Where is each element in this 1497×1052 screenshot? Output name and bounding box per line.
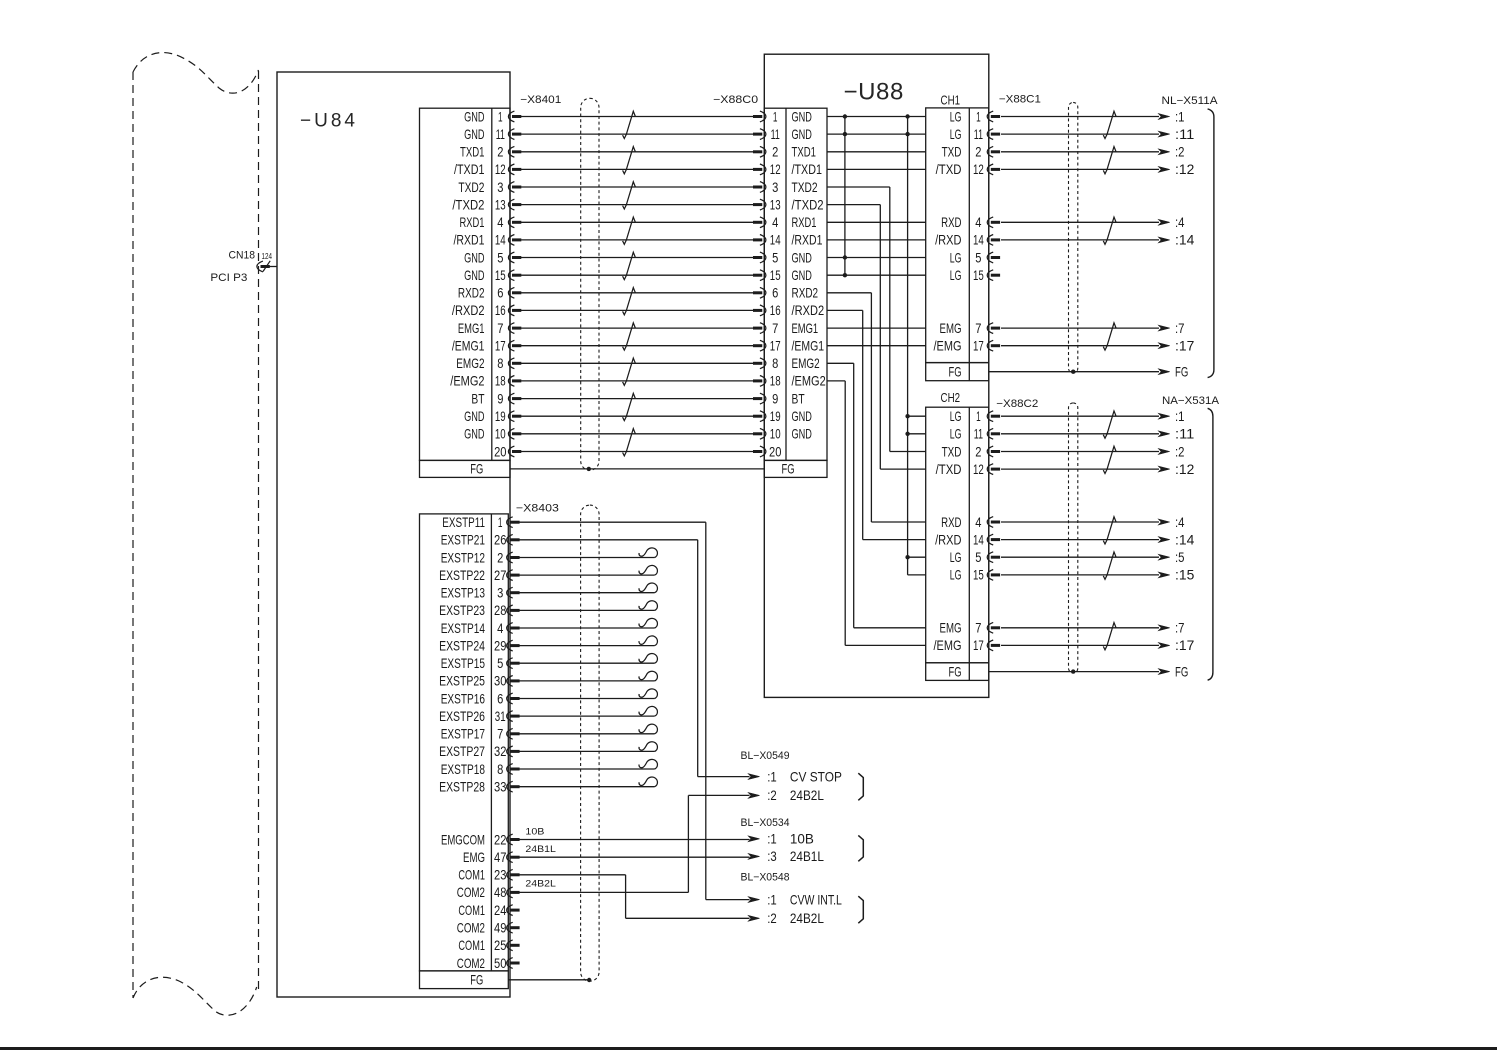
wire U88 EMG1 pin 7 to CH1 (827, 327, 926, 329)
svg-text:11: 11 (974, 127, 983, 142)
CH1 FG cell (949, 365, 962, 380)
wire CH1 to NL-X511A :14 (1001, 233, 1195, 248)
twisted pair mark wires 3/13 (623, 182, 636, 209)
wire CH2 to NA-X531A :5 (1001, 550, 1185, 565)
svg-text:5: 5 (497, 250, 503, 265)
wire U88 RXD1 pin 4 to CH1 (827, 221, 926, 223)
svg-text:TXD: TXD (942, 444, 962, 459)
svg-text::17: :17 (1175, 638, 1194, 653)
svg-text:RXD2: RXD2 (458, 286, 485, 301)
wire X8401 pin 4 to X88C0 pin 4 (RXD1) (521, 221, 753, 223)
wire U88 /EMG1 pin 17 to CH1 (827, 345, 926, 347)
svg-text:3: 3 (772, 180, 778, 195)
U88 channel CH2 connector table frame (926, 407, 989, 680)
svg-text::12: :12 (1175, 462, 1194, 477)
svg-text::12: :12 (1175, 162, 1194, 177)
svg-text:5: 5 (975, 250, 981, 265)
svg-text:1: 1 (773, 109, 778, 124)
svg-text:GND: GND (792, 409, 812, 424)
connector X8401 FG cell (470, 461, 483, 476)
svg-text:12: 12 (770, 162, 781, 177)
terminal group label BL-X0534 (741, 817, 790, 829)
svg-text:/EMG2: /EMG2 (792, 374, 826, 389)
svg-text:1: 1 (498, 515, 503, 530)
svg-text:1: 1 (976, 409, 981, 424)
svg-text:EXSTP26: EXSTP26 (439, 709, 485, 724)
svg-text::4: :4 (1175, 515, 1185, 530)
svg-text:/TXD: /TXD (936, 462, 962, 477)
wire X8403 COM2 pin 48 (24B2L) to BL-X0549 :2 (519, 795, 749, 892)
svg-text:BT: BT (471, 391, 485, 406)
wire X8403 EXSTP13 pin 3 spare (coiled end) (519, 583, 657, 593)
svg-text:TXD1: TXD1 (792, 145, 817, 160)
connector X8403 table frame (420, 514, 509, 989)
svg-text:/TXD1: /TXD1 (454, 162, 485, 177)
wire U88 GND pin 5 to CH1 (827, 257, 926, 259)
svg-text:9: 9 (497, 391, 503, 406)
svg-text:10B: 10B (790, 832, 814, 847)
svg-text:RXD1: RXD1 (792, 215, 817, 230)
svg-text:24B2L: 24B2L (525, 879, 556, 890)
svg-text:EMG: EMG (463, 850, 485, 865)
svg-text:EXSTP25: EXSTP25 (439, 674, 485, 689)
svg-text:EMG2: EMG2 (792, 356, 820, 371)
svg-text:50: 50 (494, 956, 507, 971)
svg-text:LG: LG (950, 568, 962, 583)
wire FG X8401 to X88C0 with shield junction (510, 467, 764, 471)
svg-text:COM2: COM2 (457, 885, 485, 900)
svg-text:−X88C2: −X88C2 (996, 398, 1038, 410)
svg-text:CH1: CH1 (941, 93, 961, 108)
wire X8403 EXSTP11 pin 1 to BL-X0548 :1 (519, 522, 749, 899)
BL-X0548 :1 CVW INT.L (748, 892, 842, 907)
svg-text:EXSTP18: EXSTP18 (441, 762, 486, 777)
wire CH2 to NA-X531A :15 (1001, 568, 1195, 583)
connector CN18 (PCI P3) pin stub with bus slash, wire to U84 (210, 249, 277, 284)
svg-text:5: 5 (497, 656, 503, 671)
connector X8403 FG cell (470, 972, 483, 987)
wire X8401 pin 14 to X88C0 pin 14 (/RXD1) (521, 239, 753, 241)
svg-text:10: 10 (495, 427, 506, 442)
svg-text:25: 25 (494, 938, 507, 953)
svg-text:15: 15 (973, 568, 984, 583)
svg-text:17: 17 (973, 638, 984, 653)
twisted pair mark :2/:12 (1103, 446, 1116, 473)
wire X8403 EMG pin 47 (24B1L) to BL-X0534 :3 (519, 844, 749, 857)
wire X8401 pin 7 to X88C0 pin 7 (EMG1) (521, 327, 753, 329)
twisted pair mark wires 9/19 (623, 393, 636, 420)
svg-text:LG: LG (950, 250, 962, 265)
svg-text:28: 28 (494, 603, 507, 618)
svg-text:/TXD: /TXD (936, 162, 962, 177)
twisted pair mark :2/:12 (1103, 147, 1116, 174)
svg-text:17: 17 (770, 339, 781, 354)
wire X8401 pin 20 to X88C0 pin 20 (521, 451, 753, 453)
svg-text:13: 13 (495, 197, 506, 212)
wire X8403 EXSTP27 pin 32 spare (coiled end) (519, 742, 657, 752)
svg-text:CVW INT.L: CVW INT.L (790, 892, 842, 907)
svg-text:GND: GND (792, 427, 812, 442)
svg-text:4: 4 (497, 621, 503, 636)
svg-text:11: 11 (974, 427, 983, 442)
wire X8403 EXSTP12 pin 2 spare (coiled end) (519, 548, 657, 558)
wire CH2 to NA-X531A :11 (1001, 427, 1194, 442)
wire X8403 EXSTP17 pin 7 spare (coiled end) (519, 724, 657, 734)
svg-text:FG: FG (782, 461, 795, 476)
svg-text:14: 14 (973, 532, 984, 547)
wire CH2 to NA-X531A :12 (1001, 462, 1194, 477)
svg-text:LG: LG (950, 427, 962, 442)
svg-text:/EMG1: /EMG1 (452, 339, 485, 354)
wire X8403 EMGCOM pin 22 (10B) to BL-X0534 :1 (519, 827, 749, 840)
label NL-X511A (1162, 95, 1219, 107)
CH1 pin sockets (987, 111, 1000, 351)
svg-text:3: 3 (497, 180, 503, 195)
wire U88 RXD2 to CH2 (827, 293, 926, 522)
connector X8401 table frame (420, 108, 511, 477)
svg-text:8: 8 (772, 356, 778, 371)
svg-text:15: 15 (770, 268, 781, 283)
wire CH2 to NA-X531A :17 (1001, 638, 1194, 653)
wire CH1 to NL-X511A :17 (1001, 339, 1194, 354)
svg-text:2: 2 (497, 145, 503, 160)
wire X8403 EXSTP26 pin 31 spare (coiled end) (519, 706, 657, 716)
wire CH1 to NL-X511A :11 (1001, 127, 1194, 142)
svg-text:20: 20 (494, 444, 507, 459)
svg-text::2: :2 (1175, 444, 1185, 459)
svg-text:−U88: −U88 (844, 79, 904, 106)
svg-text:11: 11 (771, 127, 780, 142)
terminal group bracket BL-X0548 (858, 896, 863, 923)
wire CH2 to NA-X531A :7 (1001, 621, 1185, 636)
svg-text:EXSTP21: EXSTP21 (441, 533, 485, 548)
svg-text:/TXD2: /TXD2 (792, 197, 824, 212)
svg-text::7: :7 (1175, 321, 1185, 336)
label -X8401 (520, 94, 561, 106)
svg-text:4: 4 (772, 215, 778, 230)
svg-text:4: 4 (497, 215, 503, 230)
wire X8401 pin 3 to X88C0 pin 3 (TXD2) (521, 186, 753, 188)
svg-text:COM1: COM1 (458, 938, 485, 953)
svg-text:18: 18 (770, 374, 781, 389)
svg-text:16: 16 (495, 303, 506, 318)
junction dots GND bus rows 1/11 (843, 114, 910, 136)
svg-text:7: 7 (975, 321, 981, 336)
twisted pair mark wires 6/16 (623, 288, 636, 315)
svg-text:EXSTP24: EXSTP24 (439, 638, 485, 653)
svg-text:7: 7 (497, 727, 503, 742)
svg-text:−X8403: −X8403 (516, 502, 559, 514)
svg-text:PCI P3: PCI P3 (210, 272, 247, 284)
connector X88C0 pin sockets (753, 111, 766, 457)
cable group bracket NL-X511A (1208, 109, 1214, 378)
wire CH1 FG to NL-X511A FG with shield junction (989, 364, 1189, 379)
CH2 FG cell (949, 664, 962, 679)
cable shield X8401-X88C0 (dashed capsule) (581, 98, 599, 470)
wire X8403 EXSTP25 pin 30 spare (coiled end) (519, 671, 657, 681)
svg-text:2: 2 (975, 145, 981, 160)
svg-text::14: :14 (1175, 532, 1195, 547)
svg-text:LG: LG (950, 268, 962, 283)
svg-text::17: :17 (1175, 339, 1194, 354)
svg-text:GND: GND (464, 427, 484, 442)
svg-text::1: :1 (767, 892, 777, 907)
BL-X0549 :1 CV STOP (748, 769, 842, 784)
wire X8401 pin 10 to X88C0 pin 10 (GND) (521, 433, 753, 435)
svg-text:EXSTP11: EXSTP11 (442, 515, 485, 530)
svg-text:12: 12 (973, 162, 984, 177)
svg-text:FG: FG (470, 461, 483, 476)
svg-text:19: 19 (495, 409, 506, 424)
connector X8403 signal names and pin numbers (439, 515, 507, 971)
connector X88C0 pin numbers and signal names (769, 109, 826, 459)
svg-text:EXSTP27: EXSTP27 (439, 744, 485, 759)
svg-text:3: 3 (497, 586, 503, 601)
svg-text:CN18: CN18 (229, 249, 256, 261)
svg-text:24B1L: 24B1L (790, 849, 824, 864)
svg-text:EXSTP15: EXSTP15 (441, 656, 486, 671)
svg-text:COM1: COM1 (458, 903, 485, 918)
svg-text:2: 2 (497, 550, 503, 565)
svg-text::1: :1 (1175, 109, 1185, 124)
wire X8403 EXSTP23 pin 28 spare (coiled end) (519, 601, 657, 611)
svg-text:RXD: RXD (941, 515, 961, 530)
wire U88 TXD1 pin 2 to CH1 (827, 151, 926, 153)
wire CH2 LG 5 from GND bus (905, 555, 925, 559)
svg-text:24B1L: 24B1L (525, 844, 556, 855)
svg-text:EXSTP23: EXSTP23 (439, 603, 485, 618)
svg-text:16: 16 (770, 303, 781, 318)
terminal group label BL-X0549 (741, 750, 790, 762)
wire U88 /TXD2 to CH2 (827, 205, 926, 470)
connector X88C0 table frame (764, 108, 827, 477)
svg-text:6: 6 (497, 286, 503, 301)
svg-text:NL−X511A: NL−X511A (1162, 95, 1219, 107)
label -X88C2 (996, 398, 1038, 410)
svg-text:EMG: EMG (940, 321, 962, 336)
svg-text:/RXD1: /RXD1 (792, 233, 823, 248)
svg-text:14: 14 (495, 233, 506, 248)
BL-X0548 :2 24B2L (748, 911, 824, 926)
label -X88C0 (713, 94, 758, 106)
svg-text::11: :11 (1175, 427, 1194, 442)
svg-text:49: 49 (494, 921, 507, 936)
svg-text:5: 5 (772, 250, 778, 265)
svg-text:TXD2: TXD2 (458, 180, 484, 195)
svg-text:24B2L: 24B2L (790, 911, 824, 926)
svg-text:15: 15 (495, 268, 506, 283)
svg-text:/TXD2: /TXD2 (452, 197, 484, 212)
wire CH1 to NL-X511A :2 (1001, 145, 1185, 160)
wire U88 EMG2 to CH2 (827, 363, 926, 628)
label CH1 (941, 93, 961, 108)
svg-text:EMG1: EMG1 (458, 321, 485, 336)
BL-X0534 :3 24B1L (748, 849, 824, 864)
wire X8401 pin 1 to X88C0 pin 1 (GND) (521, 116, 753, 118)
wire X8401 pin 15 to X88C0 pin 15 (GND) (521, 274, 753, 276)
svg-text:/EMG: /EMG (934, 638, 962, 653)
svg-text:EMG: EMG (940, 621, 962, 636)
wire CH1 to NL-X511A :12 (1001, 162, 1194, 177)
BL-X0549 :2 24B2L (748, 788, 824, 803)
svg-text:31: 31 (495, 709, 506, 724)
svg-text::5: :5 (1175, 550, 1185, 565)
label NA-X531A (1162, 395, 1220, 407)
svg-text:EXSTP12: EXSTP12 (441, 550, 485, 565)
wire CH2 to NA-X531A :14 (1001, 532, 1195, 547)
svg-text:TXD2: TXD2 (792, 180, 818, 195)
wire X8403 EXSTP16 pin 6 spare (coiled end) (519, 689, 657, 699)
wire X8401 pin 17 to X88C0 pin 17 (/EMG1) (521, 345, 753, 347)
svg-text:BT: BT (792, 391, 806, 406)
cable shield X8403 (dashed capsule) (581, 505, 600, 981)
svg-text:24: 24 (494, 903, 507, 918)
svg-text:FG: FG (1175, 364, 1188, 379)
wire CH1 to NL-X511A :7 (1001, 321, 1185, 336)
wire CH2 LG 15 from GND bus (908, 574, 926, 576)
svg-text:GND: GND (792, 268, 812, 283)
svg-text:/EMG: /EMG (934, 339, 962, 354)
svg-text:/RXD2: /RXD2 (792, 303, 825, 318)
wire X8401 pin 13 to X88C0 pin 13 (/TXD2) (521, 204, 753, 206)
svg-text:6: 6 (772, 286, 778, 301)
svg-text:1: 1 (976, 109, 981, 124)
svg-text:20: 20 (769, 444, 782, 459)
wire CH2 LG 1 from GND bus (905, 414, 925, 418)
svg-text:/RXD: /RXD (935, 233, 961, 248)
CH1 signal names and pin numbers (934, 109, 985, 353)
svg-text:NA−X531A: NA−X531A (1162, 395, 1220, 407)
svg-text:12: 12 (495, 162, 506, 177)
svg-text:−X88C0: −X88C0 (713, 94, 758, 106)
label -X8403 (516, 502, 559, 514)
svg-text:17: 17 (973, 339, 984, 354)
svg-text:LG: LG (950, 550, 962, 565)
svg-text:12: 12 (973, 462, 984, 477)
svg-text:EXSTP13: EXSTP13 (441, 586, 486, 601)
wire X8403 EXSTP22 pin 27 spare (coiled end) (519, 565, 657, 575)
wire X8403 EXSTP21 pin 26 to BL-X0549 :1 (519, 540, 749, 777)
svg-text:33: 33 (494, 780, 507, 795)
svg-text:4: 4 (975, 515, 981, 530)
svg-text:BL−X0549: BL−X0549 (741, 750, 790, 762)
U88 internal GND bus to CH2 LG (907, 117, 909, 575)
svg-text:GND: GND (464, 109, 484, 124)
wire X8401 pin 11 to X88C0 pin 11 (GND) (521, 133, 753, 135)
wire X8401 pin 5 to X88C0 pin 5 (GND) (521, 257, 753, 259)
svg-text:10: 10 (770, 427, 781, 442)
twisted pair mark :4/:14 (1103, 217, 1116, 244)
svg-text:GND: GND (792, 109, 812, 124)
svg-text:19: 19 (770, 409, 781, 424)
wire U88 /EMG2 to CH2 (827, 381, 926, 646)
svg-text::14: :14 (1175, 233, 1195, 248)
wire U88 /RXD2 to CH2 (827, 310, 926, 539)
twisted pair mark wires 7/17 (623, 323, 636, 350)
svg-text:GND: GND (792, 127, 812, 142)
svg-text:/RXD1: /RXD1 (454, 233, 485, 248)
svg-text::1: :1 (767, 832, 777, 847)
svg-text:/EMG2: /EMG2 (450, 374, 484, 389)
svg-text:−X88C1: −X88C1 (999, 94, 1041, 106)
svg-text:GND: GND (464, 268, 484, 283)
svg-text:2: 2 (772, 145, 778, 160)
twisted pair mark :5/:15 (1103, 552, 1116, 579)
wire X8401 pin 6 to X88C0 pin 6 (RXD2) (521, 292, 753, 294)
svg-text:/RXD2: /RXD2 (452, 303, 485, 318)
cable shield X88C1 (dashed capsule) (1069, 102, 1078, 373)
wire X8403 COM1 pin 23 to BL-X0548 :2 (519, 875, 749, 919)
svg-text:TXD1: TXD1 (460, 145, 485, 160)
CH2 signal names and pin numbers (934, 409, 985, 653)
cable group bracket NA-X531A (1208, 408, 1213, 680)
svg-text:/TXD1: /TXD1 (792, 162, 823, 177)
connector X8403 pin sockets (507, 517, 520, 969)
twisted pair mark :7/:17 (1103, 323, 1116, 350)
svg-text:24B2L: 24B2L (790, 788, 824, 803)
svg-text:2: 2 (975, 444, 981, 459)
svg-text:18: 18 (495, 374, 506, 389)
svg-text:EMG1: EMG1 (792, 321, 819, 336)
svg-text:15: 15 (973, 268, 984, 283)
terminal group bracket BL-X0534 (858, 835, 863, 861)
cable shield X88C2 (dashed capsule) (1069, 403, 1078, 673)
svg-text:29: 29 (494, 638, 507, 653)
svg-text:LG: LG (950, 127, 962, 142)
U88 channel CH1 connector table frame (926, 108, 989, 381)
board U84 outline (277, 72, 510, 997)
svg-text:6: 6 (497, 691, 503, 706)
svg-text:27: 27 (494, 568, 506, 583)
wire U88 GND pin 11 to CH1 (827, 133, 926, 135)
label -U88 (844, 79, 904, 106)
wire U88 GND pin 1 to CH1 (827, 116, 926, 118)
terminal group bracket BL-X0549 (858, 773, 863, 800)
svg-text:23: 23 (494, 868, 507, 883)
svg-text:7: 7 (772, 321, 778, 336)
label -U84 (300, 111, 358, 132)
wire X8403 EXSTP28 pin 33 spare (coiled end) (519, 777, 657, 787)
twisted pair mark :7/:17 (1103, 623, 1116, 650)
twisted pair mark wires 1/11 (623, 111, 636, 138)
svg-text:BL−X0548: BL−X0548 (741, 872, 790, 884)
svg-text:14: 14 (973, 233, 984, 248)
wire X8401 pin 8 to X88C0 pin 8 (EMG2) (521, 362, 753, 364)
terminal group label BL-X0548 (741, 872, 790, 884)
svg-text:14: 14 (770, 233, 781, 248)
svg-text::2: :2 (767, 788, 777, 803)
CH2 pin sockets (987, 411, 1000, 651)
wire X8401 pin 18 to X88C0 pin 18 (/EMG2) (521, 380, 753, 382)
sheet bottom border rule (0, 1047, 1497, 1050)
label -X88C1 (999, 94, 1041, 106)
twisted pair mark wires 5/15 (623, 252, 636, 279)
svg-text:22: 22 (494, 832, 506, 847)
svg-text:CH2: CH2 (941, 390, 961, 405)
svg-text:8: 8 (497, 762, 503, 777)
svg-text:COM2: COM2 (457, 921, 485, 936)
wire X8401 pin 9 to X88C0 pin 9 (BT) (521, 398, 753, 400)
wire X8401 pin 16 to X88C0 pin 16 (/RXD2) (521, 309, 753, 311)
svg-text:7: 7 (975, 621, 981, 636)
svg-text:LG: LG (950, 409, 962, 424)
svg-text:EXSTP14: EXSTP14 (441, 621, 486, 636)
wire U88 /TXD1 pin 12 to CH1 (827, 168, 926, 170)
svg-text:47: 47 (494, 850, 506, 865)
svg-text:1: 1 (498, 109, 503, 124)
label CH2 (941, 390, 961, 405)
host board outline (dashed, broken) (133, 53, 259, 1016)
